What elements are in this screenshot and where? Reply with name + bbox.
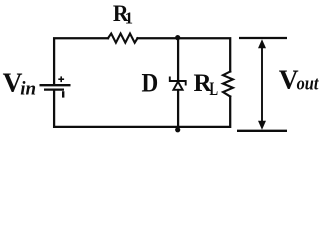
label Vin [3, 67, 36, 100]
resistor RL [223, 72, 233, 97]
Vout arrow bottom reference line [237, 130, 287, 132]
svg-text:1: 1 [125, 9, 133, 28]
Vout arrow top reference line [239, 37, 287, 39]
node junction: diode branch to bottom wire [175, 127, 180, 132]
Vout measure arrow [258, 39, 266, 130]
svg-text:out: out [297, 72, 320, 93]
label R1 [113, 0, 133, 27]
battery positive terminal + [58, 76, 64, 82]
wire diode branch [177, 38, 179, 127]
wire top-left segment [54, 38, 108, 84]
svg-text:D: D [142, 69, 159, 98]
battery Vin plates [40, 85, 71, 89]
label RL [194, 70, 219, 99]
wire top-right segment [138, 38, 231, 71]
svg-text:in: in [20, 79, 36, 100]
diode D (zener) [170, 77, 186, 90]
wire bottom [54, 90, 230, 127]
battery negative terminal - [62, 91, 64, 97]
resistor R1 [108, 34, 138, 43]
label Vout [279, 64, 320, 95]
node junction: diode branch to top wire [175, 35, 180, 40]
svg-text:L: L [209, 77, 218, 99]
